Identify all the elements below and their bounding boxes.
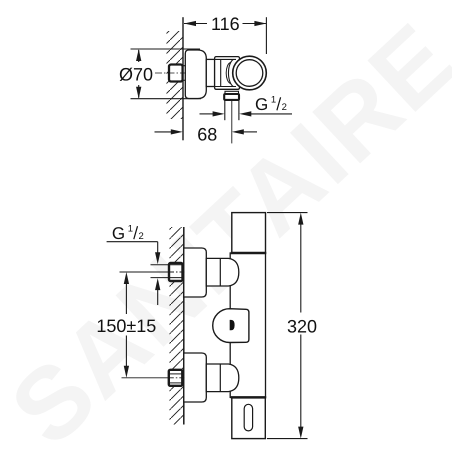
top inlet escutcheon — [184, 248, 207, 297]
svg-text:68: 68 — [197, 125, 217, 145]
bracket — [206, 59, 214, 86]
G1/2 label (top view) — [255, 95, 287, 114]
dim 116 — [184, 21, 266, 26]
svg-text:116: 116 — [211, 14, 240, 34]
dim 320 — [267, 213, 308, 439]
body top section — [232, 213, 266, 253]
knob inner circle — [236, 60, 263, 87]
svg-text:G: G — [112, 224, 125, 243]
handle (side view) — [213, 309, 249, 343]
body bottom section — [232, 397, 265, 438]
wall line (bottom view) — [183, 227, 185, 425]
dim 68 — [155, 129, 258, 134]
wall line (top view) — [182, 17, 184, 140]
cylinder cap arc — [228, 59, 233, 86]
outlet oval — [244, 404, 252, 431]
G1/2 leader (bottom view) — [107, 242, 161, 305]
dim Ø70 — [131, 49, 202, 99]
svg-text:150±15: 150±15 — [96, 316, 156, 336]
bottom inlet step + dome — [206, 364, 239, 392]
outlet nut (top view) — [224, 94, 239, 100]
116 right extension line — [265, 17, 267, 54]
dim 150±15 — [124, 272, 129, 378]
outlet step — [225, 91, 239, 94]
cylinder housing — [215, 57, 240, 90]
G1/2 label (bottom view) — [112, 224, 144, 243]
top inlet nut — [169, 263, 183, 281]
svg-text:G: G — [255, 95, 268, 114]
svg-text:2: 2 — [282, 102, 287, 113]
knob outer circle — [233, 56, 267, 90]
wall hatching (bottom view) — [170, 227, 185, 425]
temp safe button — [230, 320, 235, 330]
inlet centerline (top view) — [155, 72, 186, 74]
top inlet step + dome — [206, 258, 239, 286]
fitting arc behind escutcheon — [177, 66, 192, 81]
escutcheon (top view) — [185, 50, 206, 99]
svg-text:Ø70: Ø70 — [119, 65, 153, 85]
svg-text:1: 1 — [128, 224, 133, 235]
top inlet pipe — [151, 264, 184, 266]
outlet pipe edges — [224, 100, 226, 120]
top inlet centerline — [120, 271, 170, 273]
svg-text:2: 2 — [139, 231, 144, 242]
bottom inlet escutcheon — [184, 353, 207, 402]
svg-text:1: 1 — [271, 95, 276, 106]
bottom inlet centerline — [122, 377, 169, 379]
square fitting on wall — [169, 65, 183, 82]
bottom inlet nut — [169, 370, 183, 386]
svg-text:320: 320 — [287, 316, 317, 336]
wall hatching (top view) — [167, 31, 184, 119]
outlet pipe centerline — [231, 100, 233, 143]
G1/2 arrows (top view) — [200, 111, 293, 116]
mid body — [230, 253, 265, 397]
